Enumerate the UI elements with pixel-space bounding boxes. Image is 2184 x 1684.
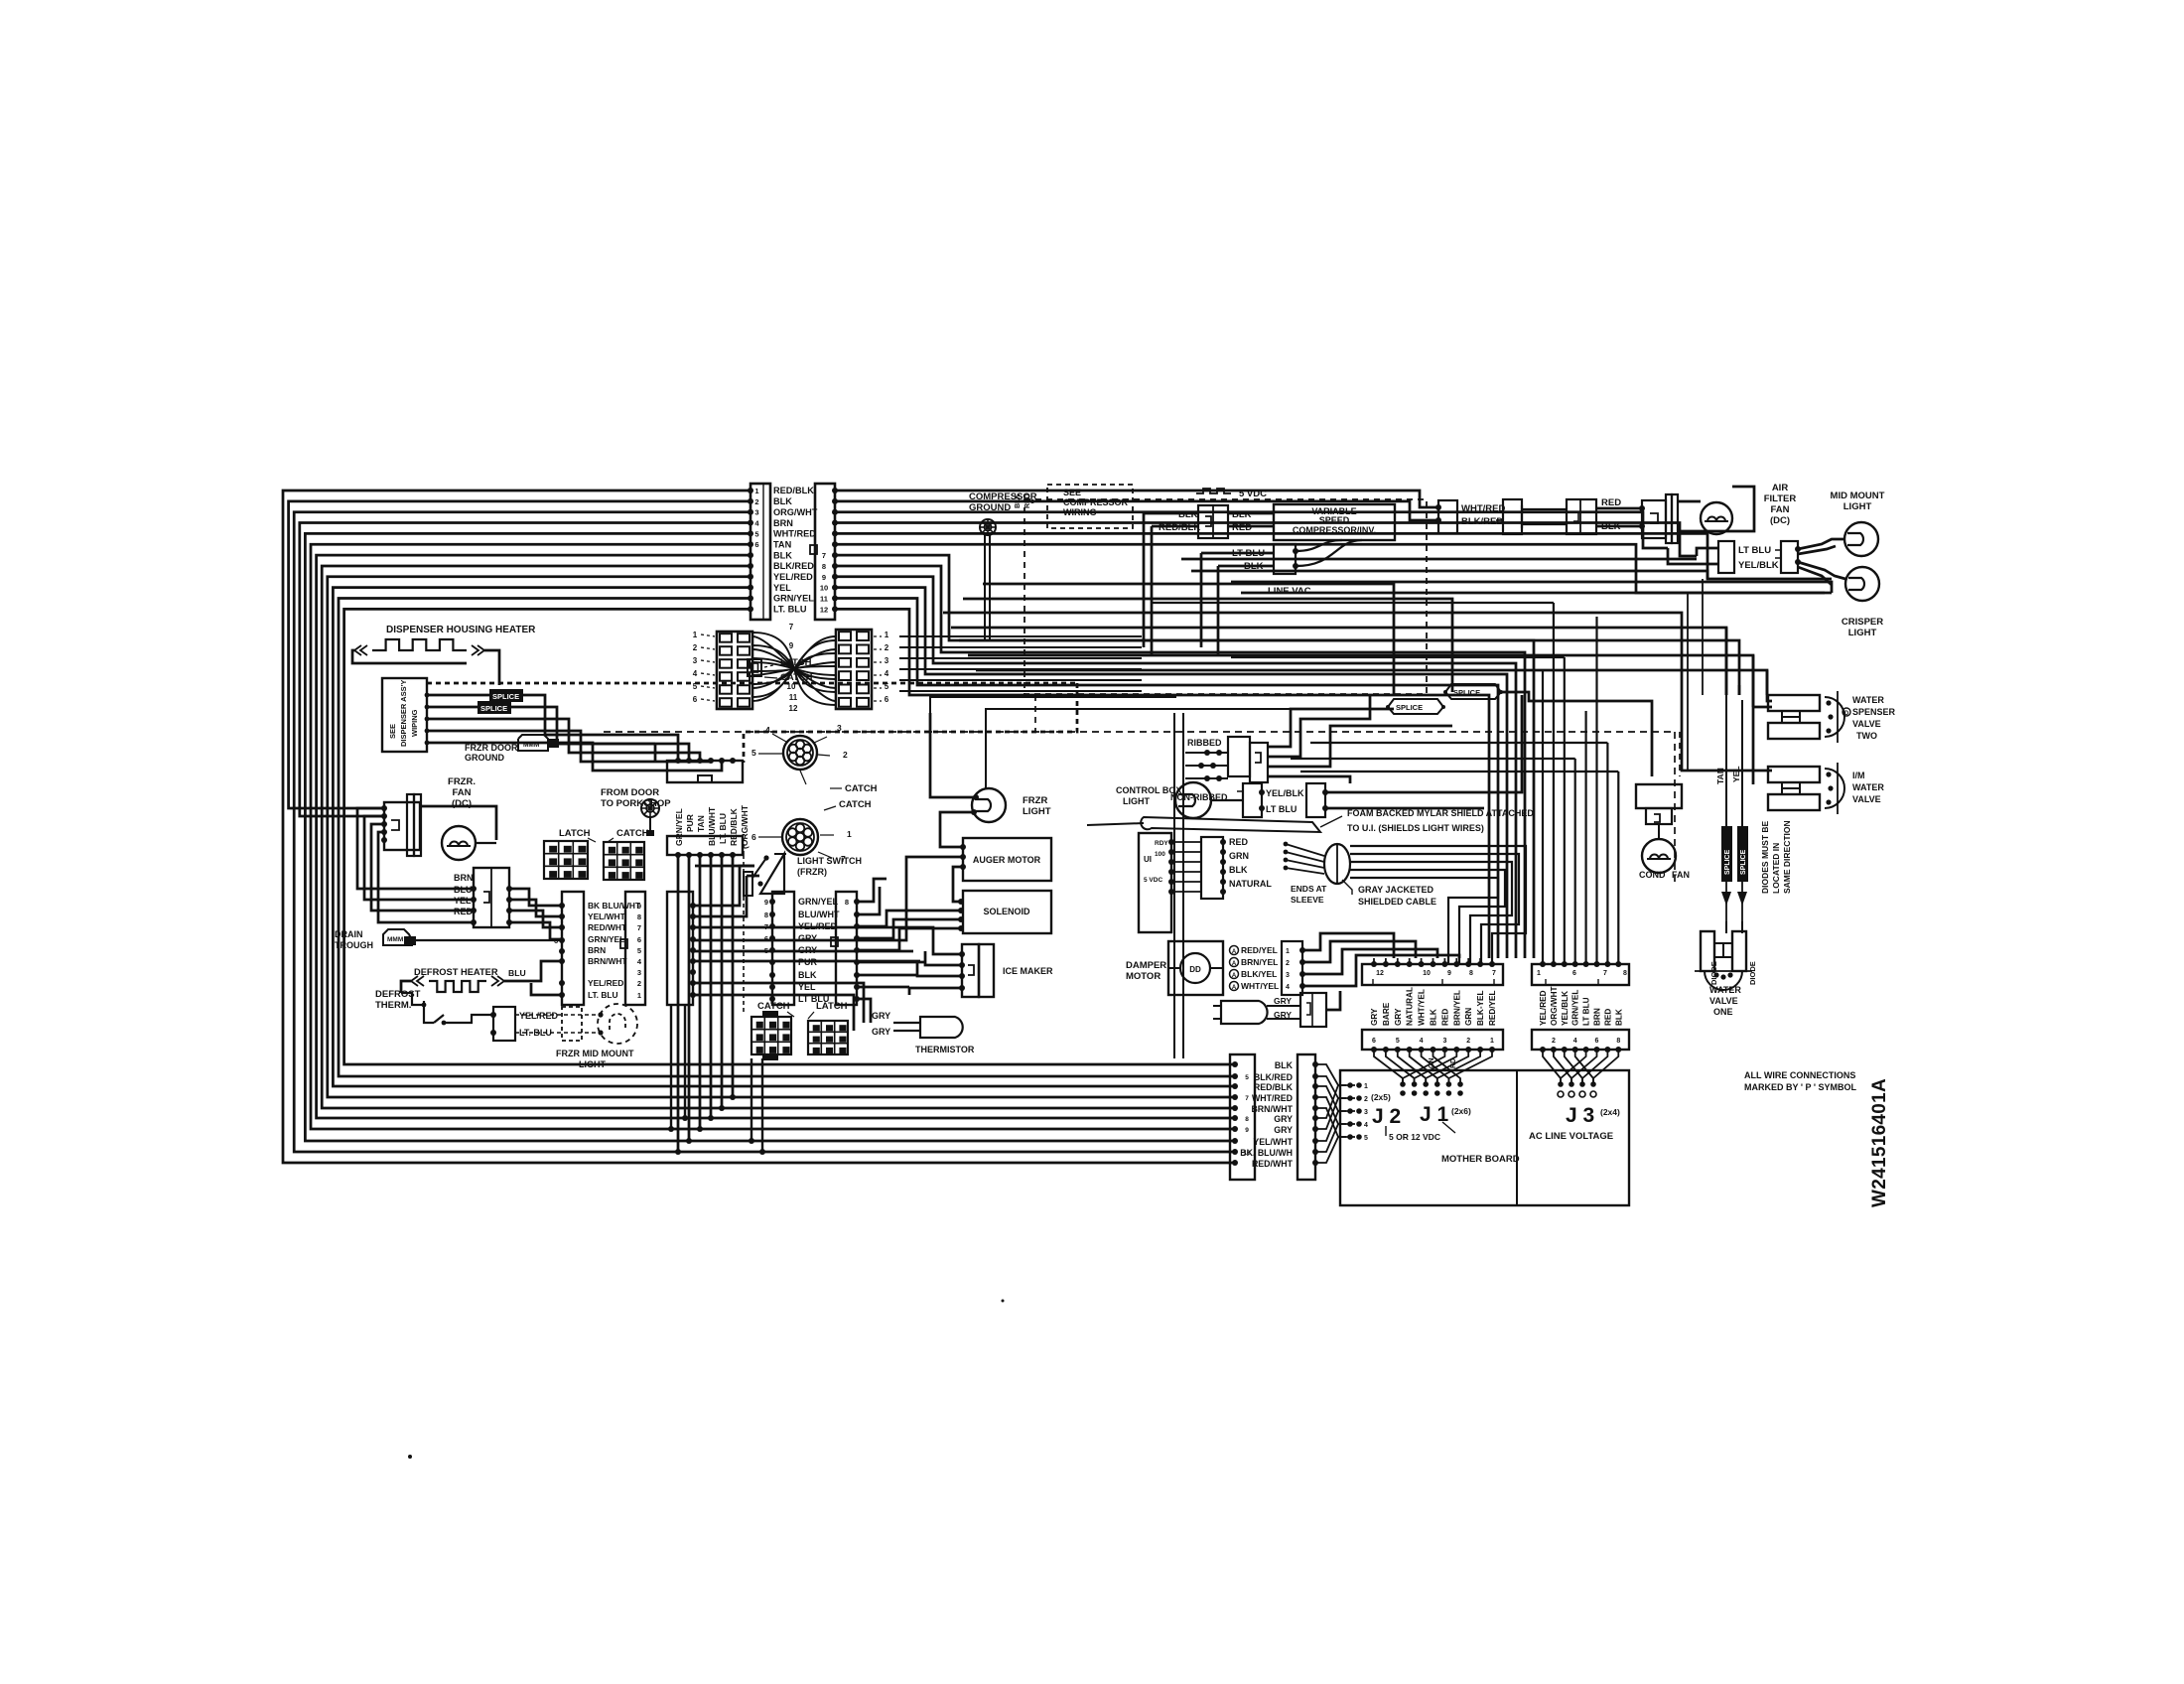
svg-text:GRY: GRY [798,945,817,955]
svg-text:MMM: MMM [387,936,403,943]
svg-text:DD: DD [1189,965,1201,974]
crossing wires between latch grids [752,632,836,705]
svg-text:(2x5): (2x5) [1371,1092,1391,1102]
svg-text:MMM: MMM [523,742,539,749]
svg-text:5: 5 [1245,1074,1249,1081]
air filter fan motor [1701,502,1732,534]
wire column C drop 1 [668,1005,674,1132]
wire P1 pin 6 loop to motherboard [311,544,1238,1132]
svg-text:SPEED: SPEED [1319,515,1350,525]
svg-text:LIGHT: LIGHT [579,1059,606,1069]
svg-text:YEL/WHT: YEL/WHT [1253,1137,1293,1147]
svg-text:LIGHT: LIGHT [1023,806,1051,817]
svg-text:GRN/YEL: GRN/YEL [798,897,839,907]
wires to valve two [1753,655,1772,707]
svg-text:GRN/YEL: GRN/YEL [674,808,684,846]
svg-text:8: 8 [637,912,641,921]
CATCH label pair1 [608,828,649,842]
svg-text:RIBBED: RIBBED [1187,738,1222,748]
svg-text:LT BLU: LT BLU [798,994,829,1004]
svg-text:ONE: ONE [1713,1007,1733,1017]
svg-text:11: 11 [820,595,828,604]
J1 2x6 pin dots [1400,1081,1463,1096]
wire P1 pin 4 to FRZR FAN [300,523,751,817]
svg-text:6: 6 [1572,970,1576,977]
wire P1 pin 8 loop to motherboard [322,566,1238,1111]
J1 rotated wire labels [1370,987,1497,1026]
svg-text:4: 4 [1364,1122,1368,1129]
svg-text:A: A [1232,949,1237,955]
svg-text:8: 8 [845,898,849,907]
svg-text:BLK-YEL: BLK-YEL [1476,991,1485,1026]
mid mount light lamp [1844,522,1878,556]
svg-text:WHT/YEL: WHT/YEL [1241,981,1279,991]
control box light connector 2 [1306,783,1328,817]
ENDS AT SLEEVE label [1291,884,1327,905]
control box light connector [1237,783,1265,817]
svg-text:A: A [1232,985,1237,991]
DAMPER MOTOR label [1126,960,1166,982]
svg-text:(2x6): (2x6) [1451,1106,1471,1116]
svg-text:4: 4 [1420,1038,1424,1045]
svg-text:YEL/RED: YEL/RED [1539,990,1548,1026]
wire run y764 [1291,758,1575,760]
CATCH label round upper [830,783,878,794]
svg-text:1: 1 [1286,948,1290,955]
svg-text:J 2: J 2 [1372,1105,1401,1128]
svg-text:1: 1 [1490,1038,1494,1045]
wire P2 pin1 to WHT/RED connector [835,491,1438,507]
latch grid left (dashed) [717,631,752,709]
svg-text:WATER: WATER [1852,782,1884,792]
MID MOUNT LIGHT label [1831,491,1885,512]
svg-text:W241516401A: W241516401A [1869,1078,1890,1207]
twin leads [1522,505,1567,528]
svg-text:10: 10 [820,584,828,593]
5 OR 12 VDC label [1386,1122,1455,1142]
svg-text:GRN/YEL: GRN/YEL [1571,990,1580,1026]
wire YEL vertical [1741,700,1743,826]
cond fan connector [1636,784,1682,824]
FROM DOOR TO PORKCHOP label [601,787,671,809]
catch grid pair1 right [604,842,644,880]
J3 upper strip connector [1532,961,1629,985]
wire P2 pin12 staircase to middle band [835,609,1489,958]
svg-text:9: 9 [764,898,768,907]
svg-text:YEL/BLK: YEL/BLK [1561,991,1570,1026]
wire middle band run B [963,599,1452,692]
ALL WIRE CONNECTIONS note [1744,1070,1856,1092]
MB input labels [1240,1060,1293,1169]
diode arrows [1721,882,1747,921]
svg-text:SPLICE: SPLICE [1453,688,1480,697]
crossover pin numbers [787,623,798,713]
wire middle band run H [1181,558,1697,561]
svg-text:LIGHT: LIGHT [1843,501,1872,512]
ICE MAKER label [1003,966,1053,976]
long vertical frzr light [986,709,1300,788]
svg-text:SPLICE: SPLICE [1724,849,1731,875]
drain trough heater [383,929,416,945]
svg-text:WHT/RED: WHT/RED [773,529,816,539]
svg-text:YEL: YEL [798,982,816,992]
connector right half [1567,499,1596,534]
svg-text:THERM.: THERM. [375,1000,411,1011]
splice block lower [478,701,511,714]
wire yel/red branch [531,983,562,995]
labels LT BLU / YEL-BLK [1738,545,1779,571]
wire YEL/BLK run [1325,695,1522,792]
svg-text:A: A [1232,973,1237,979]
svg-text:LIGHT: LIGHT [1123,796,1150,806]
svg-text:1: 1 [637,991,641,1000]
BLK label [1178,509,1198,520]
vertical feeds J3 strip [1543,603,1618,964]
svg-text:MARKED BY ' P ' SYMBOL: MARKED BY ' P ' SYMBOL [1744,1082,1856,1092]
svg-text:ALL WIRE CONNECTIONS: ALL WIRE CONNECTIONS [1744,1070,1855,1080]
svg-text:TWO: TWO [1856,731,1877,741]
J3 rotated wire labels [1539,986,1623,1026]
wires fan into cable [1284,842,1324,874]
round connector upper pin labels [751,723,848,784]
wires column E right [857,879,961,1023]
svg-text:BLK: BLK [1015,494,1022,508]
RED/BLK label [1159,522,1200,533]
wire dispenser lead 5 [425,741,722,771]
svg-text:CONTROL BOX: CONTROL BOX [1116,785,1181,795]
svg-text:SEE: SEE [388,724,397,739]
column connector B numbered [620,892,645,1005]
svg-text:YEL: YEL [773,583,791,593]
svg-text:BK. BLU/WH: BK. BLU/WH [1240,1148,1293,1158]
svg-text:BLK: BLK [773,550,792,560]
wire P1 pin 5 loop to motherboard [305,533,1238,1144]
wire middle band run G [976,670,1767,695]
svg-text:GRY: GRY [872,1011,890,1021]
svg-text:LT. BLU: LT. BLU [773,605,807,615]
svg-text:BLK: BLK [1229,865,1248,875]
wires to im valve [1682,628,1772,771]
cond fan motor [1642,824,1676,873]
dot page artifact [408,1300,1005,1460]
svg-text:DIODES MUST BE: DIODES MUST BE [1760,820,1770,894]
BLK label right [1232,509,1252,520]
svg-text:RED/BLK: RED/BLK [1159,522,1200,533]
svg-text:FRZR.: FRZR. [448,776,476,787]
svg-text:SPLICE: SPLICE [1396,703,1423,712]
svg-text:WIRING: WIRING [1063,507,1097,517]
svg-text:SPLICE: SPLICE [480,704,507,713]
svg-text:LT. BLU: LT. BLU [588,990,618,1000]
compressor ground label [969,491,1037,513]
svg-text:6: 6 [637,935,641,944]
CATCH label round lower [824,799,872,810]
wire P2 pin2 to BLK/RED connector [835,501,1438,520]
svg-text:8: 8 [764,911,768,919]
wire crisper feed upper [1231,582,1832,593]
CATCH label [764,672,813,683]
svg-text:LATCH: LATCH [559,828,591,839]
svg-text:LOCATED IN: LOCATED IN [1771,843,1781,894]
compressor wiring dashed rect [1024,499,1427,694]
AIR FILTER FAN (DC) label [1764,483,1797,526]
svg-text:3: 3 [693,656,698,665]
water valve one [1695,931,1752,990]
svg-text:10: 10 [787,682,796,691]
J2 pin dots [1347,1082,1368,1142]
wire BLK into compressor connector [1144,512,1198,515]
wire catch grid drop 2 [759,1058,765,1155]
svg-text:BK BLU/WHT: BK BLU/WHT [588,901,641,911]
svg-text:7: 7 [1492,970,1496,977]
svg-text:FRZR DOOR: FRZR DOOR [465,743,518,753]
svg-text:4: 4 [885,669,889,678]
svg-text:RED/WHT: RED/WHT [1252,1159,1294,1169]
svg-text:7: 7 [1245,1095,1249,1102]
svg-text:2: 2 [1466,1038,1470,1045]
latch bracket [748,659,761,676]
porkchop upper connector [667,758,743,782]
WATER VALVE ONE label [1709,985,1741,1017]
wires porkchop down [675,855,744,1155]
DIODE label right [1748,961,1757,985]
svg-text:3: 3 [1442,1038,1446,1045]
wire LT BLU run [1325,807,1484,810]
svg-text:8: 8 [1623,970,1627,977]
wires into column D from left [695,866,759,876]
defrost thermostat [401,993,493,1025]
svg-text:AC LINE VOLTAGE: AC LINE VOLTAGE [1529,1131,1613,1142]
porkchop ground symbol [641,799,659,836]
svg-text:MID MOUNT: MID MOUNT [1831,491,1885,501]
J3 label [1566,1104,1594,1127]
svg-text:BLU: BLU [508,968,526,978]
svg-text:J 3: J 3 [1566,1104,1594,1127]
5 VDC coil symbol [1196,489,1267,499]
center band horizontals [899,636,1142,691]
wire P1 pin 10 loop to motherboard [333,588,1238,1089]
svg-text:MOTOR: MOTOR [1126,971,1160,982]
wire line vac curves [1296,540,1362,566]
left 4-pin connector [471,868,512,927]
J3 pin dots [1558,1081,1596,1097]
wire P1 pin 2 to FRZR FAN [289,501,751,808]
svg-text:WIPING: WIPING [410,709,419,737]
wire valve one feeds [1726,921,1742,933]
DEFROST HEATER label [414,967,498,977]
MB input column left [1230,1054,1255,1180]
svg-text:BLK/RED: BLK/RED [773,561,814,571]
wire P1 pin 3 loop to motherboard [294,512,1238,1155]
dashed shield line [604,731,1675,733]
svg-text:BLK: BLK [1430,1009,1438,1026]
vertical small labels B R [1015,493,1031,508]
latch grid left pin numbers [693,631,715,704]
svg-text:7: 7 [637,923,641,932]
svg-text:1: 1 [885,631,889,639]
svg-text:RDY: RDY [1155,840,1168,847]
wires cable bundle right [1350,846,1526,964]
svg-text:BRN: BRN [588,945,606,955]
connector P2 (mating half, pins 7-12) [810,484,838,620]
svg-text:5 VDC: 5 VDC [1144,877,1162,884]
wire run y662 [1231,656,1565,658]
svg-text:BLU/WHT: BLU/WHT [707,806,717,846]
svg-text:RED: RED [1024,493,1031,508]
splice block 2 [1443,684,1503,699]
motherboard J3 divider [1516,1070,1518,1205]
svg-text:10: 10 [1423,970,1431,977]
svg-text:YEL: YEL [1731,766,1741,782]
frzr door ground tab [518,735,559,751]
column A wire labels [588,901,641,1000]
porkchop wire labels [674,804,750,849]
wires UI to connector [1171,842,1201,892]
FRZR MID MOUNT LIGHT label [556,1049,634,1069]
svg-text:BLK: BLK [1178,509,1198,520]
foam mylar shield blade [1087,817,1320,832]
svg-text:RED/BLK: RED/BLK [729,807,739,846]
svg-text:SLEEVE: SLEEVE [1291,895,1324,905]
svg-text:5: 5 [764,946,768,955]
wire BLK to fan plug [1596,523,1645,529]
svg-text:FRZR MID MOUNT: FRZR MID MOUNT [556,1049,634,1058]
wires from ribbed connector [1268,695,1452,783]
svg-text:GRN: GRN [1464,1008,1473,1026]
DIODE label left [1709,961,1718,985]
svg-text:PUR: PUR [798,957,818,967]
solenoid box [958,891,1051,933]
LATCH label pair1 [559,828,596,842]
svg-text:YEL/BLK: YEL/BLK [1266,788,1304,798]
wire cond fan feed [1679,732,1681,776]
column connector C [667,892,696,1005]
svg-text:2: 2 [637,979,641,988]
svg-text:RED/BLK: RED/BLK [773,486,814,495]
see dispenser assy wiping box [382,678,427,752]
svg-text:3: 3 [754,508,758,517]
MB input column right [1297,1054,1318,1180]
svg-text:4: 4 [1286,984,1290,991]
svg-text:GRY: GRY [798,933,817,943]
svg-text:BLK/RED: BLK/RED [1461,516,1503,527]
svg-text:SPENSER: SPENSER [1852,707,1896,717]
svg-text:RED: RED [1232,522,1252,533]
wire P2 pin3 long run [835,512,1668,548]
see compressor wiring dashed box [1027,485,1133,528]
svg-text:RED: RED [1603,1009,1612,1026]
svg-text:GRN/YEL: GRN/YEL [773,594,814,604]
FRZR DOOR GROUND label [465,743,518,763]
svg-text:5: 5 [885,682,889,691]
J1 upper strip connector [1362,961,1503,985]
round connector lower [782,819,818,855]
svg-text:WATER: WATER [1852,695,1884,705]
labels WHT/RED BLK/RED [1461,503,1505,527]
svg-text:RED/YEL: RED/YEL [1241,945,1278,955]
LATCH label pair2 [808,1001,848,1019]
svg-text:BRN/YEL: BRN/YEL [1241,957,1278,967]
svg-text:(ORG/WHT: (ORG/WHT [740,804,750,849]
right risers [1688,579,1703,771]
svg-text:4: 4 [1573,1038,1577,1045]
svg-text:BLK: BLK [798,970,817,980]
J1 lower strip connector [1362,1030,1503,1052]
wire P2 pin4 long run [835,523,1697,557]
svg-text:LT BLU: LT BLU [1738,545,1771,556]
latch grid right pin numbers [874,631,889,704]
svg-text:TO PORKCHOP: TO PORKCHOP [601,798,671,809]
svg-text:A: A [1232,961,1237,967]
svg-text:RED: RED [1229,837,1249,847]
dashed connector small [515,1007,599,1041]
svg-text:1: 1 [1364,1083,1368,1090]
wire defrost heater to column [516,961,562,981]
wire middle band run F [968,655,1753,784]
svg-text:NATURAL: NATURAL [1229,879,1272,889]
ice maker connector [959,944,994,997]
svg-text:GN: GN [1429,1058,1435,1069]
svg-text:SEE: SEE [1063,488,1081,497]
thermistor bulb [893,1017,963,1038]
svg-text:9: 9 [822,573,826,582]
svg-text:3: 3 [637,968,641,977]
latch grid pair2 right [808,1021,848,1054]
svg-text:BLK: BLK [1275,1060,1294,1070]
frzr light lamp [971,788,1006,822]
svg-text:3: 3 [1286,972,1290,979]
J1 (2x6) label [1451,1106,1471,1116]
svg-text:9: 9 [1245,1127,1249,1134]
wires column C to right [693,857,963,1031]
dashed drop from compressor rect [1034,695,1036,732]
splice block 1 [1386,699,1445,714]
svg-text:DEFROST HEATER: DEFROST HEATER [414,967,498,977]
auger motor box [960,838,1051,881]
svg-text:2: 2 [1552,1038,1556,1045]
J3 (2x4) label [1600,1107,1620,1117]
wire into LT BLU connector [1697,548,1718,556]
svg-text:BRN: BRN [454,873,474,883]
connector LT BLU left [1718,541,1734,573]
svg-text:5: 5 [693,682,698,691]
svg-text:5: 5 [1396,1038,1400,1045]
svg-text:WHT/YEL: WHT/YEL [1418,989,1427,1026]
crisper light lamp [1845,567,1879,601]
svg-text:2: 2 [693,643,698,652]
frzr mid mount light dashed lamp [598,1004,637,1044]
svg-text:YEL: YEL [454,896,472,906]
wire run y777 [1300,771,1618,772]
wire name labels between P1 and P2 [773,486,818,614]
BLU label defrost [508,968,526,978]
svg-text:12: 12 [1376,970,1384,977]
CONTROL BOX LIGHT label [1116,785,1181,806]
svg-text:BLU/WHT: BLU/WHT [798,910,840,919]
svg-text:5 OR 12 VDC: 5 OR 12 VDC [1389,1132,1440,1142]
wire LT BLU feed [1201,553,1274,647]
svg-text:LT. BLU: LT. BLU [718,813,728,844]
DEFROST THERM label [375,989,421,1011]
svg-text:WATER: WATER [1709,985,1741,995]
labels BRN BLU YEL RED [454,873,474,916]
svg-text:SAME DIRECTION: SAME DIRECTION [1782,820,1792,894]
wires thermistor2 [1267,991,1340,1019]
svg-text:WHT/RED: WHT/RED [1252,1093,1293,1103]
svg-text:SOLENOID: SOLENOID [983,907,1030,916]
damper motor box [1168,941,1223,995]
svg-text:GRN: GRN [1229,851,1249,861]
